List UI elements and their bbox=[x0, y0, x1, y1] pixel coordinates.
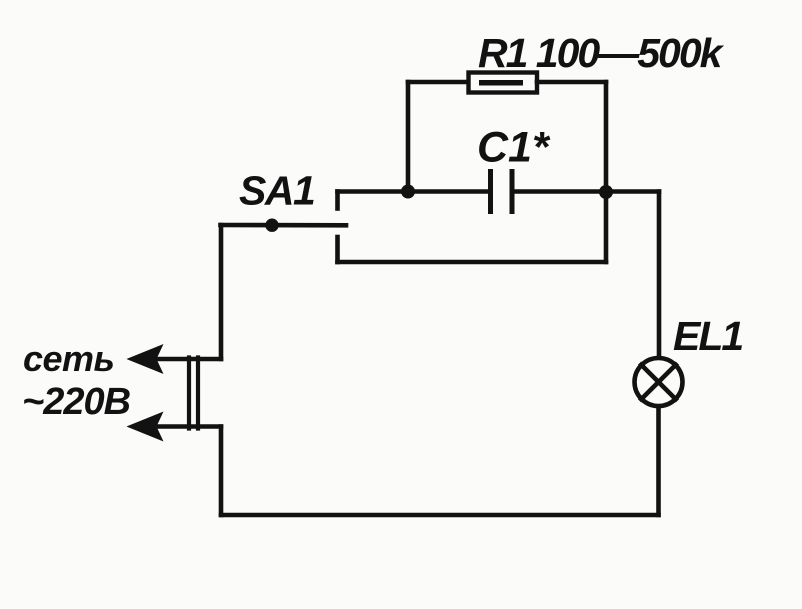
connector X1 parallel line right bbox=[196, 358, 200, 429]
lamp EL1 bbox=[635, 358, 683, 406]
wire R1 loop top-left horizontal bbox=[408, 80, 468, 85]
wire bottom horizontal bbox=[221, 513, 659, 518]
wire plug lower pin horizontal bbox=[158, 424, 221, 429]
wire bypass vertical up to junction bbox=[604, 192, 609, 262]
svg-text:EL1: EL1 bbox=[673, 313, 742, 359]
switch SA1 lever bbox=[221, 223, 347, 228]
node left junction dot bbox=[401, 185, 415, 199]
wire R1 loop top-right horizontal bbox=[537, 80, 606, 85]
arrow plug upper pin bbox=[127, 344, 164, 374]
wire capacitor row right (C1 to right rail) bbox=[514, 189, 659, 194]
wire capacitor row left (from SA1 top contact to C1) bbox=[338, 189, 489, 194]
svg-text:R1 100—500k: R1 100—500k bbox=[478, 30, 725, 76]
switch SA1 pivot dot bbox=[265, 219, 278, 232]
wire left rail bottom (bottom wire up to plug lower pin) bbox=[219, 427, 224, 516]
switch SA1 top fixed contact stub bbox=[335, 192, 340, 209]
wire right rail bottom (lamp to bottom wire) bbox=[656, 407, 661, 516]
wire plug upper pin horizontal bbox=[158, 357, 221, 362]
switch SA1 bottom fixed contact stub bbox=[335, 237, 340, 262]
svg-text:C1*: C1* bbox=[477, 124, 551, 172]
wire right rail top (junction to lamp) bbox=[657, 192, 662, 356]
svg-text:~220В: ~220В bbox=[22, 381, 131, 423]
svg-text:SA1: SA1 bbox=[239, 168, 314, 214]
capacitor C1 bbox=[488, 172, 493, 212]
wire left rail top (plug upper pin up to switch) bbox=[219, 225, 224, 359]
svg-text:сеть: сеть bbox=[23, 338, 114, 379]
wire R1 loop left vertical bbox=[406, 82, 411, 191]
resistor R1 bbox=[469, 73, 538, 93]
connector X1 parallel line left bbox=[187, 358, 191, 429]
arrow plug lower pin bbox=[127, 412, 164, 442]
wire bypass bottom horizontal (SA1 bottom contact to right junction) bbox=[338, 260, 607, 265]
node right junction dot bbox=[599, 185, 613, 199]
wire R1 loop right vertical bbox=[604, 82, 609, 192]
